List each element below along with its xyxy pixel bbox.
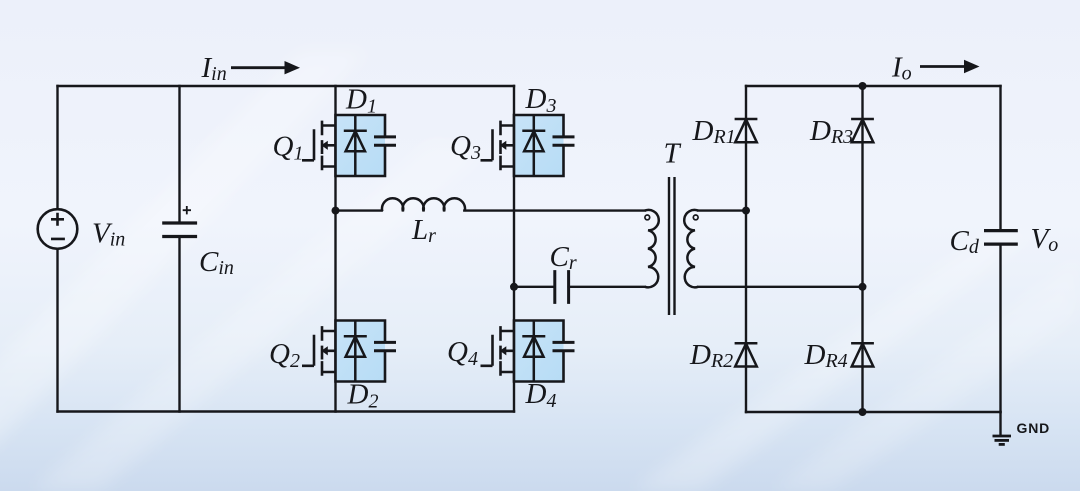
transformer T secondary polarity dot — [693, 215, 698, 220]
transformer T core — [669, 177, 675, 315]
arrow Iin — [231, 61, 300, 74]
wire output branch lower — [999, 246, 1001, 413]
diode DR2 — [735, 343, 758, 366]
transformer T secondary winding — [684, 210, 698, 287]
wire bottom-right rail — [746, 411, 1001, 413]
capacitor Cin — [162, 223, 197, 237]
wire node A to Lr — [336, 209, 382, 211]
diode DR1 — [735, 119, 758, 142]
inductor Lr — [382, 198, 465, 211]
transformer T primary polarity dot — [645, 215, 650, 220]
wire rectifier left leg — [745, 86, 747, 412]
wire rectifier right leg — [861, 86, 863, 412]
wire top-left rail — [58, 85, 515, 87]
wire bridge leg A — [334, 86, 336, 412]
wire bottom-left rail — [58, 410, 515, 412]
svg-text:T: T — [664, 138, 682, 170]
capacitor Cr — [555, 270, 569, 304]
junction dot secondary top to rectifier left leg — [742, 207, 750, 215]
junction dot bottom-right rail — [859, 408, 867, 416]
wire Lr to transformer primary — [464, 209, 645, 211]
wire bridge leg B — [513, 86, 515, 412]
switch Q2 (MOSFET with body diode D2 and capacitor) — [302, 321, 396, 382]
wire left input branch upper — [56, 86, 58, 209]
switch Q4 (MOSFET with body diode D4 and capacitor) — [481, 321, 575, 382]
svg-text:GND: GND — [1017, 420, 1051, 436]
plus polarity mark of Cin — [183, 206, 191, 214]
junction dot secondary bottom to rectifier right leg — [859, 283, 867, 291]
wire ground stem — [999, 412, 1001, 435]
diode DR4 — [851, 343, 874, 366]
wire secondary top lead — [698, 209, 746, 211]
voltage source Vin — [38, 209, 78, 249]
wire top-right rail — [746, 85, 1001, 87]
arrow Io — [920, 60, 980, 73]
wire output branch upper — [999, 86, 1001, 229]
junction dot top-right rail — [859, 82, 867, 90]
wire Cin branch upper — [178, 86, 180, 221]
ground — [993, 436, 1012, 444]
wire Cin branch lower — [178, 238, 180, 412]
transformer T primary winding — [645, 210, 659, 287]
diode DR3 — [851, 119, 874, 142]
wire node B to Cr — [514, 286, 555, 288]
node A junction dot — [332, 207, 340, 215]
wire secondary bottom lead — [698, 286, 862, 288]
wire Cr to transformer primary bottom — [569, 286, 645, 288]
node B junction dot — [510, 283, 518, 291]
capacitor Cd — [984, 231, 1018, 245]
wire left input branch lower — [56, 249, 58, 412]
switch Q1 (MOSFET with body diode D1 and capacitor) — [302, 115, 396, 176]
switch Q3 (MOSFET with body diode D3 and capacitor) — [481, 115, 575, 176]
